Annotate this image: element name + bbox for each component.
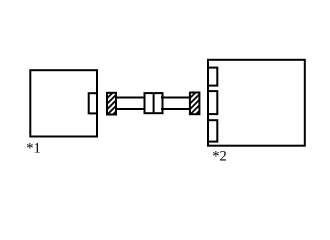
connector cavity on box *1 right edge	[89, 93, 97, 113]
svg-text:*1: *1	[26, 140, 41, 156]
wire (lower left segment)	[115, 108, 146, 110]
component box *1	[30, 70, 97, 136]
inline junction block	[145, 93, 163, 113]
box *2 cavity 1	[208, 68, 217, 86]
wire (lower right segment)	[161, 108, 191, 110]
box *2 cavity 3	[208, 120, 217, 141]
connector plug (right, hatched)	[190, 93, 200, 115]
wire (upper right segment)	[161, 97, 191, 99]
box *2 cavity 2	[208, 91, 217, 114]
connector plug (left, hatched)	[107, 93, 116, 115]
svg-text:*2: *2	[212, 148, 227, 164]
junction block divider	[153, 93, 155, 113]
component box *2	[208, 60, 305, 146]
wire (upper left segment)	[115, 97, 146, 99]
